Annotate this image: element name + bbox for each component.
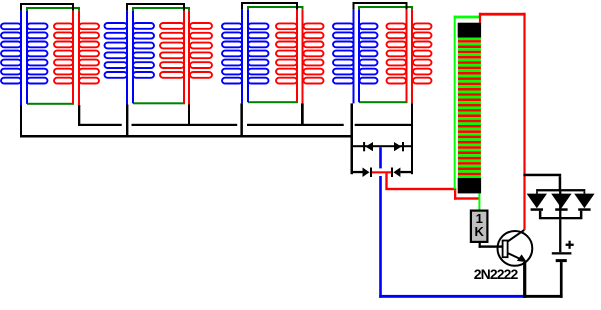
svg-text:2N2222: 2N2222 <box>474 266 519 282</box>
svg-text:K: K <box>475 224 485 239</box>
